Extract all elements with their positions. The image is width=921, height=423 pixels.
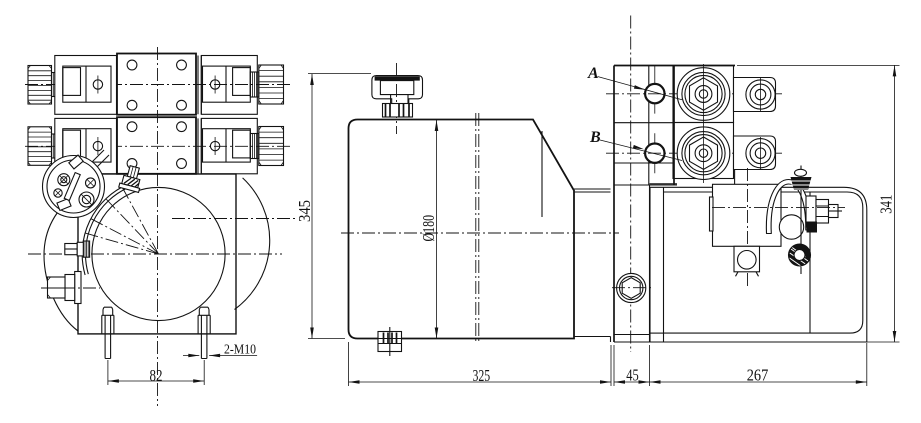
- mounting stud left: [102, 307, 114, 358]
- svg-text:82: 82: [150, 366, 163, 385]
- solenoid valve V1 left coil nut: [28, 66, 52, 105]
- motor body side view: [650, 187, 867, 342]
- row B center line: [606, 152, 782, 154]
- inner pump edge line: [541, 131, 543, 217]
- tank outline side view: [349, 120, 575, 339]
- terminal center line: [712, 206, 845, 208]
- drain plug: [378, 327, 402, 356]
- breather filler cap: [372, 76, 423, 118]
- radial center lines: [85, 187, 158, 254]
- check valve fitting B: [734, 136, 776, 184]
- center line row 1: [25, 84, 292, 86]
- svg-text:341: 341: [877, 195, 896, 214]
- center line row 2: [25, 145, 292, 147]
- valve V1 block-solenoid joint lines: [198, 56, 201, 115]
- dimension 345: [295, 74, 371, 339]
- dimension D180: [419, 120, 438, 339]
- valve V1 right coil nut: [259, 65, 284, 104]
- valve V1 left coil thread collar: [52, 73, 59, 97]
- valve V1 right solenoid body: [201, 56, 257, 115]
- svg-text:345: 345: [295, 200, 314, 222]
- tank center line left view: [172, 218, 296, 220]
- svg-text:B: B: [589, 129, 601, 146]
- svg-text:325: 325: [472, 366, 490, 385]
- solenoid valve V2 left coil nut: [28, 127, 52, 166]
- vertical center line left view: [157, 47, 159, 406]
- vertical center line right view: [630, 16, 632, 353]
- valve V1 left solenoid body: [55, 56, 117, 115]
- valve V1 center block: [117, 54, 196, 115]
- svg-text:A: A: [587, 65, 599, 82]
- manifold plate: [614, 66, 735, 343]
- tank weld seam lines: [476, 113, 479, 341]
- side plug fitting upper: [65, 241, 90, 257]
- coil block B: [673, 123, 734, 179]
- row A center line: [606, 93, 782, 95]
- copper strap loop: [766, 180, 810, 240]
- dimension 45: [614, 345, 650, 386]
- svg-text:45: 45: [626, 366, 639, 385]
- svg-text:267: 267: [747, 366, 769, 385]
- electrical connector plug: [43, 150, 110, 218]
- port label B: [589, 129, 682, 161]
- dimension 82: [108, 360, 204, 385]
- solenoid mounting bracket with hole: [734, 246, 760, 276]
- starter solenoid body: [710, 168, 782, 288]
- port A hole: [645, 84, 664, 103]
- motor end bell arc: [44, 192, 78, 331]
- mounting stud right: [198, 307, 210, 358]
- tank arc left view: [235, 178, 270, 310]
- motor center line left view: [28, 253, 282, 255]
- valve V1 right thread collar: [250, 72, 258, 97]
- svg-text:2-M10: 2-M10: [224, 343, 256, 358]
- thread callout 2-M10: [183, 343, 257, 358]
- terminal stud axis: [800, 166, 802, 275]
- breather stud on motor: [119, 164, 145, 192]
- top terminal nut: [791, 169, 812, 190]
- check valve fitting A: [734, 78, 776, 112]
- dimension 341: [737, 65, 900, 342]
- coil B end view: [677, 124, 730, 183]
- valve V2 right manual override pin: [210, 137, 219, 155]
- valve V2 left manual override pin: [93, 137, 102, 155]
- valve V2 center block: [117, 117, 196, 174]
- valve V2 right thread collar: [250, 134, 258, 159]
- side hex fitting lower: [41, 272, 100, 304]
- motor terminal block: [806, 196, 842, 233]
- tank clamp band arcs: [82, 184, 130, 275]
- pump body square: [78, 174, 236, 334]
- dimension 325: [349, 342, 612, 386]
- valve V2 right coil nut: [259, 127, 284, 166]
- motor circle: [92, 187, 225, 320]
- dimension 267: [650, 343, 867, 386]
- valve V1 right manual override pin: [210, 76, 219, 94]
- valve V1 left manual override pin: [93, 76, 102, 94]
- breather cap center line: [396, 63, 398, 134]
- valve V2 left solenoid body: [55, 118, 117, 173]
- port B hole: [645, 144, 664, 163]
- valve V2 block-solenoid joint lines: [198, 118, 201, 173]
- tank step to pump flange: [574, 189, 611, 342]
- tank horizontal center line: [341, 232, 619, 234]
- valve V2 right solenoid body: [201, 118, 257, 173]
- valve V2 left thread collar: [52, 134, 59, 158]
- suction plug on plate: [612, 273, 652, 302]
- svg-text:Ø180: Ø180: [419, 215, 438, 242]
- coil A end view: [677, 64, 730, 124]
- rubber boot terminal: [789, 244, 811, 269]
- port label A: [587, 65, 682, 100]
- bracket between plate and motor: [650, 183, 678, 185]
- coil block A: [673, 66, 734, 123]
